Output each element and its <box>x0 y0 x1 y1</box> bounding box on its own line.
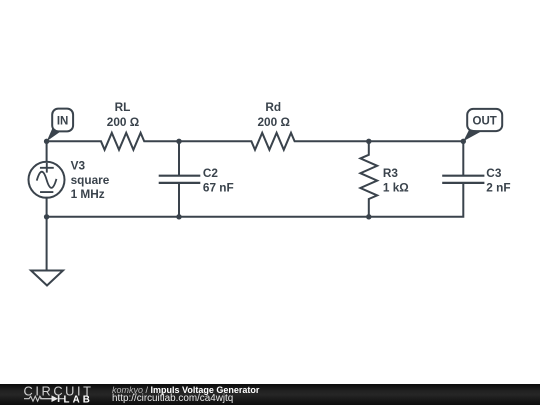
svg-text:C2: C2 <box>203 166 219 180</box>
svg-text:LAB: LAB <box>64 395 93 405</box>
svg-text:200 Ω: 200 Ω <box>107 115 139 129</box>
svg-text:1 MHz: 1 MHz <box>71 187 105 201</box>
svg-text:C3: C3 <box>486 166 502 180</box>
svg-text:67 nF: 67 nF <box>203 180 234 194</box>
svg-text:200 Ω: 200 Ω <box>257 115 289 129</box>
svg-text:IN: IN <box>57 115 69 127</box>
svg-text:square: square <box>71 173 110 187</box>
svg-text:OUT: OUT <box>473 115 497 127</box>
svg-text:RL: RL <box>115 100 131 114</box>
svg-text:V3: V3 <box>71 158 86 172</box>
svg-text:R3: R3 <box>383 166 399 180</box>
svg-text:1 kΩ: 1 kΩ <box>383 180 409 194</box>
svg-text:Rd: Rd <box>265 100 281 114</box>
svg-text:2 nF: 2 nF <box>486 180 510 194</box>
